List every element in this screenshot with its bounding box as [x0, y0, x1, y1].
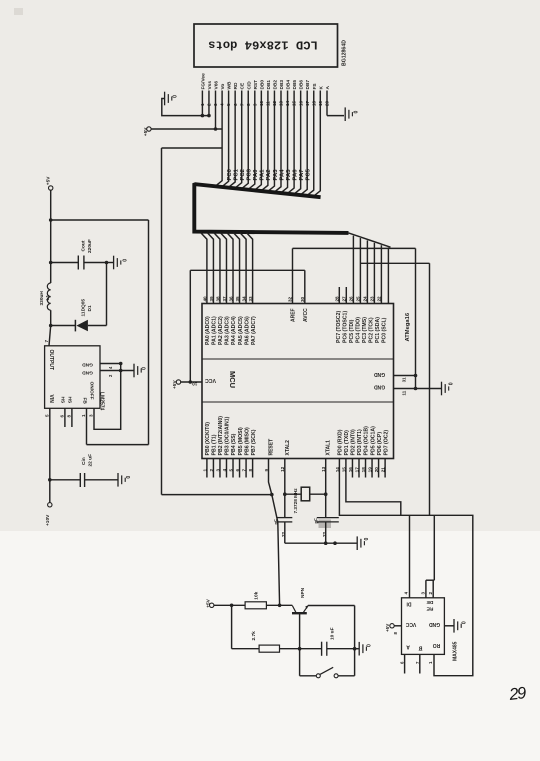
- svg-text:LM2574: LM2574: [99, 392, 105, 411]
- terminal +5V power output: [46, 176, 53, 190]
- svg-text:PB5 (MOSI): PB5 (MOSI): [238, 427, 244, 456]
- wire XTAL1: [325, 459, 327, 518]
- wire inductor to diode node: [49, 310, 53, 327]
- wire AREF to GND rail: [287, 248, 415, 375]
- wire diode node to OUTPUT pin 7: [44, 326, 51, 346]
- wire VCC rail from AVCC line to MCU pin 10: [189, 270, 191, 382]
- svg-text:3: 3: [215, 469, 220, 472]
- terminal +5V for reset circuit: [206, 598, 214, 607]
- svg-text:32: 32: [287, 296, 292, 302]
- svg-text:23: 23: [370, 296, 375, 302]
- svg-text:22: 22: [377, 296, 382, 302]
- svg-text:PB2 (INT2/AIN0): PB2 (INT2/AIN0): [218, 416, 224, 456]
- wire 2.7k to capacitor: [280, 648, 322, 650]
- svg-text:PA3: PA3: [273, 169, 279, 181]
- svg-text:PA1 (ADC1): PA1 (ADC1): [212, 316, 218, 345]
- svg-text:PC1 (SDA): PC1 (SDA): [375, 317, 381, 343]
- wires MAX485 A,B lines: [400, 654, 434, 673]
- resistor 2.7k: [251, 631, 280, 652]
- crystal Y1 7.3728 MHz: [283, 487, 328, 513]
- regulator U4 LM2574 box: [45, 346, 100, 409]
- svg-text:BG12864D: BG12864D: [342, 40, 348, 66]
- svg-text:PA0: PA0: [253, 169, 259, 181]
- svg-text:10k: 10k: [253, 591, 259, 599]
- svg-text:1: 1: [81, 414, 86, 417]
- svg-text:GND: GND: [374, 384, 386, 390]
- MAX485 pin labels: [405, 599, 440, 651]
- inductor L1 330uH: [39, 283, 51, 310]
- svg-text:MAX485: MAX485: [453, 641, 459, 661]
- svg-text:6: 6: [59, 415, 64, 418]
- svg-text:FG/Vee: FG/Vee: [200, 73, 206, 90]
- svg-text:Vo: Vo: [220, 84, 226, 90]
- svg-text:XTAL2: XTAL2: [285, 440, 291, 456]
- svg-text:PA7: PA7: [299, 169, 305, 181]
- switch S1 reset: [316, 667, 354, 678]
- MAX485 U3 box: [402, 598, 445, 655]
- svg-text:7.3728 MHz: 7.3728 MHz: [293, 488, 298, 514]
- MCU pin numbers 40-33: [202, 296, 253, 302]
- svg-text:0: 0: [173, 95, 179, 98]
- svg-text:27: 27: [342, 296, 347, 302]
- svg-text:WB: WB: [227, 81, 233, 90]
- svg-text:25: 25: [356, 296, 361, 302]
- svg-text:AVCC: AVCC: [303, 308, 309, 322]
- svg-text:31: 31: [401, 377, 406, 382]
- svg-text:16: 16: [348, 467, 353, 473]
- svg-text:21: 21: [381, 467, 386, 473]
- ground at LCD pin 20: [345, 107, 359, 121]
- wire crystal caps to ground: [285, 541, 357, 545]
- wire RESET rail to LCD area: [162, 148, 223, 495]
- svg-text:L1: L1: [45, 295, 51, 301]
- wire to switch: [300, 649, 317, 676]
- svg-text:PC0 (SCL): PC0 (SCL): [382, 317, 388, 343]
- svg-text:18: 18: [361, 467, 366, 473]
- svg-text:DB2: DB2: [272, 80, 278, 90]
- capacitor Cout 220uF: [51, 239, 113, 269]
- svg-text:3: 3: [420, 592, 425, 595]
- svg-text:PD1 (TXD): PD1 (TXD): [344, 430, 350, 456]
- capacitor 22pF at XTAL2: [274, 518, 293, 544]
- ground at MAX485: [444, 619, 467, 633]
- svg-text:PA3 (ADC3): PA3 (ADC3): [225, 316, 231, 345]
- svg-text:0: 0: [126, 476, 132, 479]
- LM2574 HS pin stubs: [59, 408, 72, 427]
- svg-text:XTAL1: XTAL1: [326, 440, 332, 456]
- svg-text:DB7: DB7: [305, 80, 311, 90]
- wire PD1/TXD feed: [346, 459, 401, 516]
- LCD module BG12864D: [194, 24, 348, 67]
- wire XTAL2: [284, 459, 286, 518]
- MAX485 label: [453, 641, 459, 661]
- svg-text:2.7k: 2.7k: [251, 631, 257, 641]
- svg-text:10: 10: [192, 381, 198, 386]
- scan artifact gray blob: [319, 520, 332, 529]
- svg-text:PC3: PC3: [247, 168, 253, 180]
- svg-text:DB0: DB0: [259, 80, 265, 90]
- svg-text:35: 35: [235, 296, 240, 302]
- bus band (thick bundle LCD to MCU): [194, 184, 348, 233]
- ground at Cout: [114, 256, 129, 270]
- svg-text:PA2: PA2: [266, 169, 272, 181]
- svg-text:RESET: RESET: [269, 439, 275, 456]
- svg-text:NPN: NPN: [300, 587, 306, 598]
- ground at LM2574: [134, 364, 148, 378]
- MCU PB0-PB7 pin stubs: [202, 459, 253, 478]
- svg-text:FB: FB: [81, 398, 87, 405]
- svg-text:PB4 (SS): PB4 (SS): [231, 433, 237, 455]
- svg-text:PA6: PA6: [292, 169, 298, 181]
- svg-text:C/D: C/D: [246, 81, 252, 90]
- transistor Q1 NPN: [292, 587, 309, 613]
- svg-text:PC2: PC2: [240, 168, 246, 180]
- diode D1 11DQ05: [51, 263, 107, 332]
- wire PD0/RXD to MAX485 RO: [339, 459, 472, 676]
- svg-text:RE: RE: [426, 606, 433, 612]
- svg-text:PA4 (ADC4): PA4 (ADC4): [231, 316, 237, 345]
- svg-text:30: 30: [300, 296, 305, 302]
- wires bus to MCU PC pins: [339, 236, 388, 304]
- svg-text:0: 0: [367, 644, 373, 647]
- wire to MAX485 DI pin 4: [404, 515, 410, 598]
- svg-text:PD4 (OC1B): PD4 (OC1B): [364, 426, 370, 456]
- wire +5V rail: [49, 190, 53, 283]
- svg-text:VIN: VIN: [48, 395, 54, 404]
- svg-text:PC7 (TOSC2): PC7 (TOSC2): [336, 311, 342, 343]
- LCD pin numbers 1-20: [200, 100, 329, 106]
- svg-text:+5V: +5V: [172, 380, 178, 389]
- svg-text:+10V: +10V: [45, 514, 51, 526]
- svg-text:HS: HS: [60, 397, 66, 404]
- svg-text:24: 24: [363, 296, 368, 302]
- MCU pin stubs numbers 9 12 13: [264, 466, 326, 472]
- terminal +10V input: [45, 503, 52, 526]
- svg-text:PB1 (T1): PB1 (T1): [212, 434, 218, 455]
- wire +5V to 10k: [214, 604, 245, 608]
- svg-text:0: 0: [364, 538, 370, 541]
- MCU AREF AVCC labels: [291, 308, 309, 322]
- svg-text:pF: pF: [274, 519, 279, 525]
- ground at crystal caps: [357, 536, 370, 550]
- svg-text:11DQ05: 11DQ05: [80, 299, 86, 317]
- capacitor Cin 22uF: [50, 454, 118, 487]
- ground at LCD pins 1,2: [162, 92, 209, 116]
- wire RESET net: [162, 459, 280, 606]
- svg-text:D1: D1: [87, 305, 93, 311]
- svg-text:PA7 (ADC7): PA7 (ADC7): [251, 316, 257, 345]
- wire node to MAX485 DE/RE: [360, 263, 429, 515]
- svg-text:ON/OFF: ON/OFF: [89, 382, 95, 400]
- terminal +5V for MCU VCC pin 10: [172, 380, 202, 389]
- svg-text:CE: CE: [240, 82, 246, 89]
- svg-text:PC3 (TMS): PC3 (TMS): [362, 317, 368, 343]
- bus wire labels PA0-PA7: [253, 169, 305, 181]
- wire LCD pin 3 to +5V: [215, 91, 217, 130]
- wire +5V node to FB rail: [51, 220, 149, 445]
- LCD pin labels: [200, 73, 330, 90]
- svg-text:36: 36: [228, 296, 233, 302]
- MCU PC pin labels: [336, 311, 388, 343]
- svg-text:PD5 (OC1A): PD5 (OC1A): [370, 426, 376, 456]
- MCU U1 ATMega16 box: [202, 304, 394, 459]
- svg-text:22 uF: 22 uF: [88, 454, 94, 467]
- ground at MCU GND pins: [442, 382, 455, 396]
- svg-text:PA0 (ADC0): PA0 (ADC0): [205, 316, 211, 345]
- wire +5V to LCD pins 3,4: [151, 127, 222, 131]
- MCU PD pin labels: [338, 426, 390, 456]
- svg-text:RD: RD: [233, 82, 239, 89]
- wire 10k to transistor base: [266, 604, 292, 608]
- svg-text:GND: GND: [82, 362, 93, 368]
- svg-text:28: 28: [335, 296, 340, 302]
- svg-text:Vss: Vss: [207, 81, 213, 90]
- wires LCD pins 5-19 into bus band: [222, 91, 320, 197]
- svg-text:PA2 (ADC2): PA2 (ADC2): [218, 316, 224, 345]
- svg-text:7: 7: [241, 469, 246, 472]
- wire to MAX485 DE/RE pins 3,2: [420, 515, 434, 598]
- svg-text:DE: DE: [426, 599, 433, 605]
- svg-text:6: 6: [235, 469, 240, 472]
- svg-text:HS: HS: [67, 397, 73, 404]
- svg-text:DB4: DB4: [286, 80, 292, 90]
- svg-text:19: 19: [367, 467, 372, 473]
- svg-text:38: 38: [215, 296, 220, 302]
- resistor 10k: [245, 591, 266, 608]
- ground at Cin: [118, 473, 132, 487]
- svg-text:DB5: DB5: [292, 80, 298, 90]
- svg-text:GND: GND: [374, 371, 386, 377]
- svg-text:5: 5: [228, 469, 233, 472]
- MCU RESET XTAL labels: [269, 439, 332, 456]
- svg-text:0: 0: [142, 367, 148, 370]
- MCU VCC MCU GND labels: [205, 371, 385, 390]
- MCU PA pin labels: [205, 316, 257, 345]
- svg-text:17: 17: [354, 467, 359, 473]
- svg-text:33: 33: [248, 296, 253, 302]
- svg-text:FS: FS: [312, 83, 318, 90]
- svg-text:220uF: 220uF: [87, 239, 93, 253]
- svg-text:PC4 (TDO): PC4 (TDO): [356, 317, 362, 343]
- wire base lead down: [298, 614, 302, 651]
- svg-text:K: K: [318, 86, 324, 90]
- svg-text:10 uF: 10 uF: [329, 627, 335, 640]
- svg-text:DB1: DB1: [266, 80, 272, 90]
- capacitor 10uF: [322, 627, 336, 655]
- wire ON/OFF pin 3 to ground: [89, 371, 121, 430]
- svg-text:0: 0: [461, 621, 467, 624]
- svg-text:PC1: PC1: [233, 168, 239, 180]
- svg-text:34: 34: [241, 296, 246, 302]
- svg-text:A: A: [406, 644, 410, 650]
- svg-text:0: 0: [449, 382, 455, 385]
- svg-text:PD2 (INT0): PD2 (INT0): [351, 429, 357, 456]
- svg-text:29: 29: [507, 684, 527, 704]
- svg-text:V66: V66: [214, 81, 220, 90]
- wires MCU GND pins 31,11 to ground: [394, 374, 442, 396]
- wire LCD pins 1,2 to ground link: [201, 91, 211, 118]
- wire FB pin 1 feedback: [81, 408, 148, 444]
- ground at reset circuit: [355, 642, 373, 656]
- capacitor 22pF at XTAL1: [314, 518, 339, 544]
- svg-text:Cin: Cin: [81, 457, 87, 465]
- svg-text:VCC: VCC: [205, 377, 216, 383]
- svg-text:4: 4: [404, 592, 409, 595]
- svg-text:PD0 (RXD): PD0 (RXD): [338, 429, 344, 455]
- svg-text:LCD 128x64 dots: LCD 128x64 dots: [208, 38, 318, 52]
- wire VIN pin 5 to +10V: [44, 408, 51, 502]
- svg-text:PA5: PA5: [286, 169, 292, 181]
- svg-text:PB3 (OC0/AIN1): PB3 (OC0/AIN1): [225, 416, 231, 455]
- svg-text:4: 4: [222, 469, 227, 472]
- wire emitter rail to switch: [354, 649, 356, 676]
- svg-text:A: A: [325, 86, 331, 90]
- svg-text:GND: GND: [429, 621, 441, 627]
- svg-text:PB6 (MISO): PB6 (MISO): [244, 427, 250, 456]
- wires bus to MCU PA0-PA7 pins: [201, 233, 253, 304]
- LM2574 labels: [48, 350, 104, 411]
- svg-text:RST: RST: [253, 80, 259, 90]
- svg-text:8: 8: [248, 469, 253, 472]
- MCU pin numbers 28-22: [335, 296, 382, 302]
- wires LM2574 GND pins: [100, 362, 134, 377]
- svg-text:+5V: +5V: [206, 598, 212, 607]
- svg-text:PC0: PC0: [227, 168, 233, 180]
- svg-text:2: 2: [209, 469, 214, 472]
- svg-text:PC5: PC5: [306, 168, 312, 180]
- svg-text:1: 1: [202, 469, 207, 472]
- wire LCD pin 20 to ground: [327, 91, 344, 116]
- terminal +5V for MAX485: [385, 623, 401, 635]
- svg-text:DI: DI: [406, 601, 412, 607]
- svg-text:11: 11: [401, 390, 406, 395]
- svg-text:AREF: AREF: [291, 308, 297, 322]
- svg-text:OUTPUT: OUTPUT: [48, 350, 54, 371]
- svg-text:MCU: MCU: [228, 371, 237, 388]
- svg-text:PC5 (TDI): PC5 (TDI): [349, 319, 355, 343]
- svg-text:+5V: +5V: [46, 176, 52, 185]
- svg-text:40: 40: [202, 296, 207, 302]
- svg-text:5: 5: [44, 414, 49, 417]
- svg-text:37: 37: [222, 296, 227, 302]
- svg-text:22: 22: [322, 531, 327, 537]
- bus wire labels PC0-PC3: [227, 168, 253, 180]
- svg-text:DB6: DB6: [299, 80, 305, 90]
- MCU label ATMega16: [405, 312, 411, 341]
- svg-text:PB0 (XCK/T0): PB0 (XCK/T0): [205, 422, 211, 456]
- svg-text:20: 20: [374, 467, 379, 473]
- svg-text:B: B: [418, 645, 422, 651]
- svg-text:26: 26: [349, 296, 354, 302]
- svg-text:PB7 (SCK): PB7 (SCK): [251, 429, 257, 455]
- svg-text:+5V: +5V: [143, 127, 149, 136]
- svg-text:PC6 (TOSC1): PC6 (TOSC1): [343, 311, 349, 343]
- terminal +5V for LCD: [143, 127, 151, 136]
- wire AVCC to VCC rail: [190, 270, 305, 303]
- svg-text:8: 8: [66, 415, 71, 418]
- svg-text:PD6 (ICP): PD6 (ICP): [377, 432, 383, 456]
- svg-text:DB3: DB3: [279, 80, 285, 90]
- svg-text:PA5 (ADC5): PA5 (ADC5): [238, 316, 244, 345]
- svg-text:PC2 (TCK): PC2 (TCK): [369, 317, 375, 343]
- svg-text:GND: GND: [82, 370, 93, 376]
- svg-text:VCC: VCC: [405, 621, 416, 627]
- wire LCD pin 4 into bus: [215, 91, 222, 187]
- bus fan-out diagonal right: [349, 233, 391, 247]
- svg-text:2: 2: [428, 592, 433, 595]
- svg-text:0: 0: [353, 111, 359, 114]
- svg-text:PD3 (INT1): PD3 (INT1): [357, 429, 363, 456]
- svg-text:PA1: PA1: [260, 169, 266, 181]
- page number 29: [507, 684, 527, 704]
- svg-text:Cout: Cout: [80, 240, 86, 251]
- svg-text:330uH: 330uH: [39, 291, 45, 306]
- svg-text:RO: RO: [433, 642, 441, 648]
- wire emitter to right rail: [308, 606, 355, 649]
- svg-text:PA4: PA4: [279, 169, 285, 181]
- MCU PB pin labels: [205, 416, 257, 456]
- svg-text:7: 7: [44, 340, 49, 343]
- svg-text:0: 0: [122, 259, 128, 262]
- svg-text:PA6 (ADC6): PA6 (ADC6): [244, 316, 250, 345]
- MCU PD2-PD7 pin stubs: [335, 459, 386, 478]
- wire capacitor to ground node: [327, 647, 357, 651]
- svg-text:3: 3: [89, 414, 94, 417]
- svg-text:PD7 (OC2): PD7 (OC2): [383, 430, 389, 456]
- svg-text:39: 39: [209, 296, 214, 302]
- bus wire label PC5: [306, 168, 312, 180]
- svg-text:ATMega16: ATMega16: [405, 312, 411, 341]
- svg-text:+5V: +5V: [385, 623, 390, 632]
- wire 2.7k branch: [232, 605, 260, 648]
- svg-text:pF: pF: [314, 518, 319, 524]
